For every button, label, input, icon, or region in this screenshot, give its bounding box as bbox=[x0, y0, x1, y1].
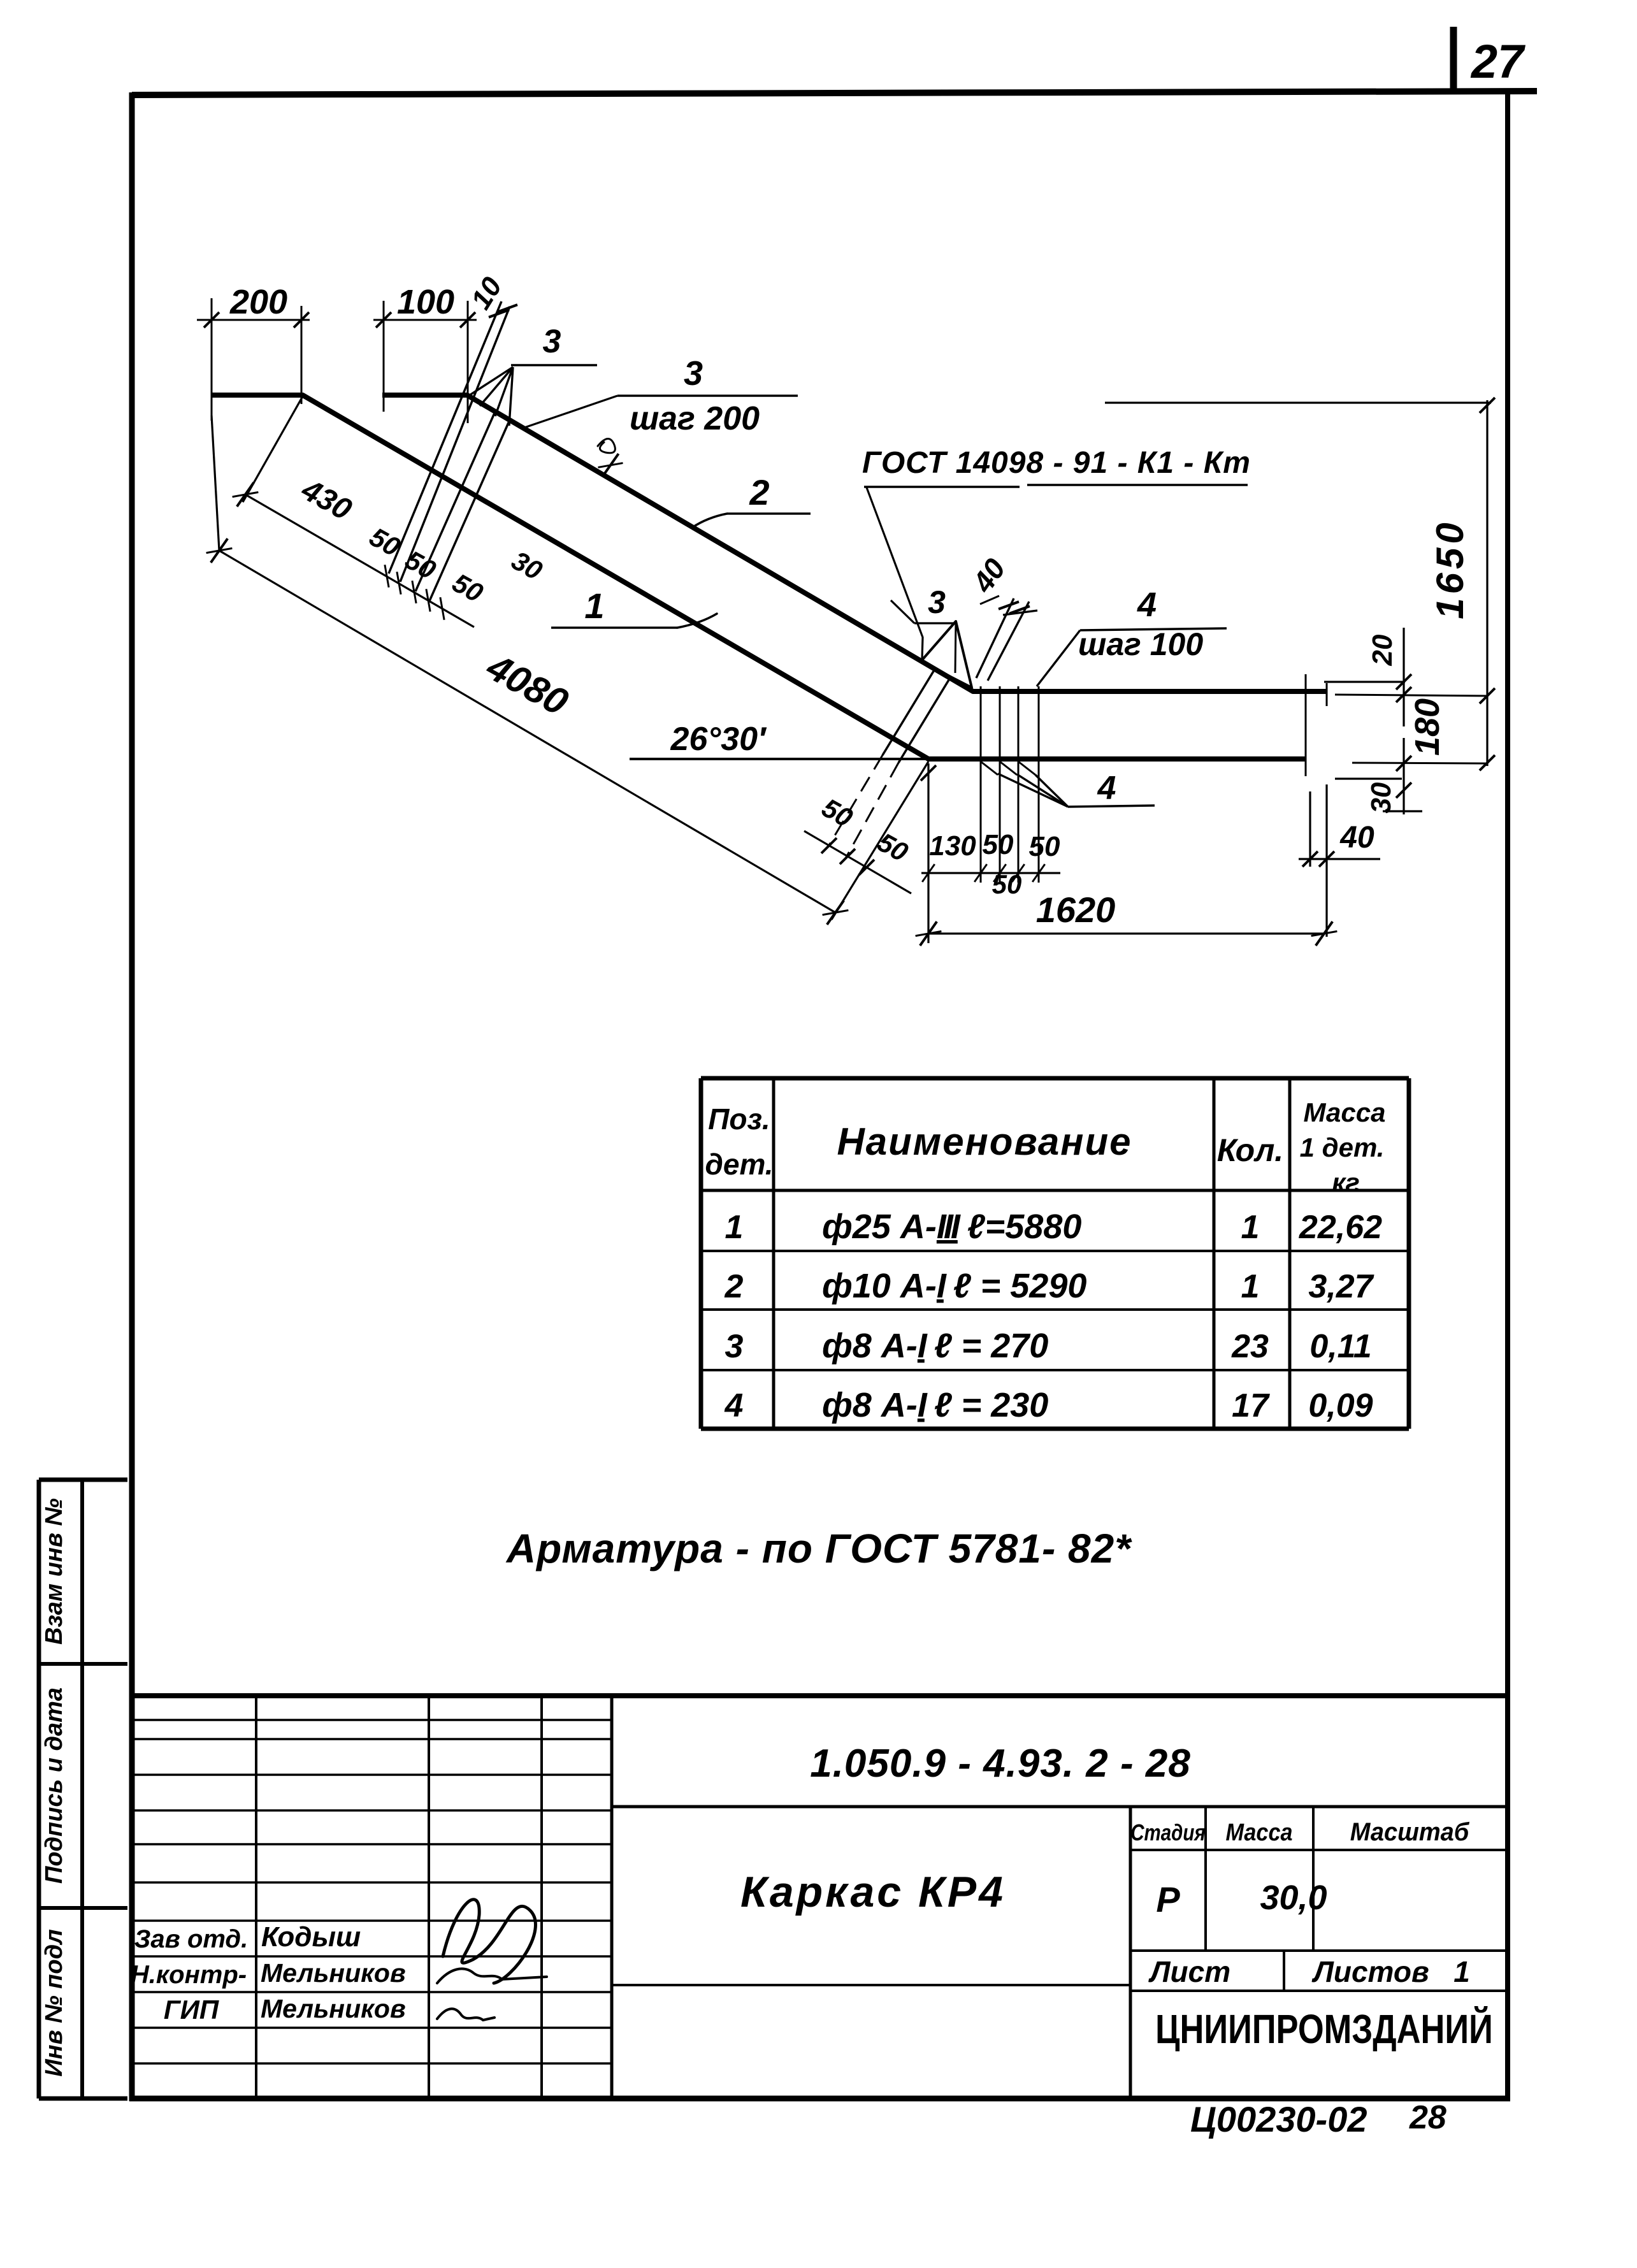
svg-text:0,09: 0,09 bbox=[1308, 1387, 1373, 1424]
svg-text:шаг 100: шаг 100 bbox=[1078, 626, 1203, 662]
svg-text:1: 1 bbox=[1241, 1209, 1260, 1246]
svg-text:40: 40 bbox=[965, 553, 1012, 599]
svg-text:50: 50 bbox=[364, 521, 405, 562]
svg-text:3: 3 bbox=[725, 1328, 744, 1365]
svg-text:30: 30 bbox=[1366, 782, 1397, 813]
svg-text:ф8 А-I ℓ = 230: ф8 А-I ℓ = 230 bbox=[822, 1386, 1048, 1424]
svg-text:50: 50 bbox=[992, 869, 1022, 899]
svg-text:Подпись и дата: Подпись и дата bbox=[41, 1687, 68, 1884]
svg-text:200: 200 bbox=[229, 283, 287, 321]
svg-text:10: 10 bbox=[465, 271, 508, 315]
svg-text:Наименование: Наименование bbox=[837, 1120, 1132, 1163]
svg-text:23: 23 bbox=[1231, 1328, 1269, 1365]
svg-text:Кодыш: Кодыш bbox=[261, 1921, 361, 1953]
svg-text:30: 30 bbox=[507, 545, 547, 586]
svg-text:1620: 1620 bbox=[1036, 890, 1116, 930]
svg-text:40: 40 bbox=[1339, 821, 1374, 855]
svg-text:3: 3 bbox=[543, 323, 561, 360]
svg-text:Кол.: Кол. bbox=[1217, 1132, 1283, 1168]
svg-text:ГОСТ 14098 - 91 - К1 - Кт: ГОСТ 14098 - 91 - К1 - Кт bbox=[862, 446, 1251, 480]
svg-text:3: 3 bbox=[928, 584, 946, 620]
svg-text:17: 17 bbox=[1232, 1387, 1270, 1424]
svg-text:50: 50 bbox=[1029, 831, 1060, 862]
svg-text:Мельников: Мельников bbox=[261, 1958, 406, 1988]
svg-text:кг: кг bbox=[1332, 1167, 1360, 1197]
svg-text:Взам инв №: Взам инв № bbox=[41, 1498, 68, 1645]
svg-text:дет.: дет. bbox=[705, 1148, 773, 1181]
svg-text:180: 180 bbox=[1408, 698, 1446, 756]
svg-text:20: 20 bbox=[1367, 634, 1398, 666]
svg-text:1: 1 bbox=[1241, 1268, 1260, 1305]
svg-text:Лист: Лист bbox=[1148, 1955, 1230, 1988]
svg-text:Арматура - по ГОСТ 5781- 82*: Арматура - по ГОСТ 5781- 82* bbox=[505, 1526, 1132, 1571]
svg-text:30,0: 30,0 bbox=[1260, 1879, 1327, 1917]
svg-text:1: 1 bbox=[584, 586, 604, 626]
svg-text:50: 50 bbox=[447, 567, 488, 608]
svg-text:50: 50 bbox=[400, 544, 441, 585]
svg-text:Ц00230-02: Ц00230-02 bbox=[1190, 2099, 1367, 2139]
svg-text:1 дет.: 1 дет. bbox=[1300, 1132, 1385, 1162]
svg-text:1: 1 bbox=[1453, 1955, 1470, 1988]
svg-text:50: 50 bbox=[872, 827, 913, 867]
svg-text:2: 2 bbox=[749, 472, 769, 512]
svg-text:Н.контр-: Н.контр- bbox=[131, 1961, 247, 1989]
svg-text:Масштаб: Масштаб bbox=[1350, 1818, 1469, 1846]
svg-text:430: 430 bbox=[296, 472, 357, 527]
svg-text:ф25 А-III ℓ=5880: ф25 А-III ℓ=5880 bbox=[822, 1208, 1081, 1246]
svg-text:4: 4 bbox=[725, 1387, 744, 1424]
svg-text:Масса: Масса bbox=[1304, 1097, 1386, 1127]
svg-text:50: 50 bbox=[983, 829, 1014, 860]
svg-text:Инв № подл: Инв № подл bbox=[41, 1929, 68, 2076]
svg-text:100: 100 bbox=[397, 283, 454, 321]
svg-text:26°30′: 26°30′ bbox=[670, 721, 767, 758]
svg-text:27: 27 bbox=[1470, 35, 1526, 88]
svg-text:Мельников: Мельников bbox=[261, 1994, 406, 2023]
svg-text:Масса: Масса bbox=[1226, 1818, 1293, 1845]
svg-text:Каркас КР4: Каркас КР4 bbox=[740, 1868, 1006, 1916]
svg-text:Зав отд.: Зав отд. bbox=[134, 1925, 249, 1953]
svg-text:22,62: 22,62 bbox=[1299, 1209, 1382, 1246]
svg-text:Поз.: Поз. bbox=[708, 1102, 770, 1136]
svg-text:ф10 А-I ℓ = 5290: ф10 А-I ℓ = 5290 bbox=[822, 1267, 1086, 1305]
svg-text:3,27: 3,27 bbox=[1308, 1268, 1374, 1305]
svg-text:Р: Р bbox=[1156, 1879, 1180, 1919]
svg-text:4: 4 bbox=[1137, 586, 1157, 624]
svg-text:28: 28 bbox=[1409, 2099, 1446, 2136]
svg-text:4: 4 bbox=[1097, 770, 1116, 807]
svg-text:шаг 200: шаг 200 bbox=[630, 400, 760, 437]
svg-text:3: 3 bbox=[684, 354, 703, 393]
svg-text:0,11: 0,11 bbox=[1309, 1328, 1371, 1365]
svg-text:ГИП: ГИП bbox=[164, 1995, 219, 2025]
svg-text:1.050.9 - 4.93. 2 - 28: 1.050.9 - 4.93. 2 - 28 bbox=[810, 1742, 1191, 1786]
svg-text:2: 2 bbox=[725, 1268, 744, 1305]
svg-text:50: 50 bbox=[817, 792, 858, 833]
svg-text:1: 1 bbox=[725, 1209, 744, 1246]
svg-text:Стадия: Стадия bbox=[1130, 1819, 1206, 1845]
svg-text:ЦНИИПРОМЗДАНИЙ: ЦНИИПРОМЗДАНИЙ bbox=[1155, 2005, 1493, 2052]
svg-text:ф8 А-I ℓ = 270: ф8 А-I ℓ = 270 bbox=[822, 1327, 1048, 1365]
svg-text:Листов: Листов bbox=[1311, 1955, 1429, 1988]
svg-text:1650: 1650 bbox=[1429, 519, 1471, 619]
svg-text:130: 130 bbox=[929, 830, 976, 862]
